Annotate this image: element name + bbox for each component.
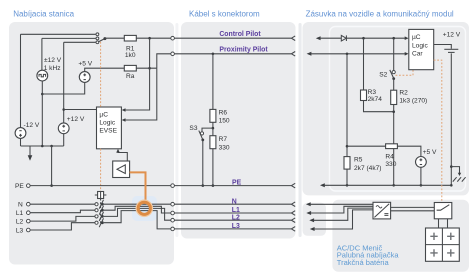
node: bus squarewave gnd [41, 145, 44, 148]
wire branch to R4 [347, 145, 386, 147]
svg-text:Ra: Ra [126, 73, 135, 80]
svg-text:Kábel s konektorom: Kábel s konektorom [189, 10, 260, 19]
terminal PP [171, 52, 175, 56]
wire L3 to contactor [30, 223, 95, 230]
svg-text:µC: µC [99, 112, 108, 119]
node S3 branch [212, 127, 215, 130]
terminal L2 mid [171, 218, 175, 222]
wire PE across panel1 [30, 185, 171, 187]
node R3R2 join [392, 110, 395, 113]
chevron PP right [291, 52, 295, 57]
wire N panel2 [174, 203, 291, 205]
wire L3 panel2 [174, 228, 291, 230]
source +5V vehicle [416, 149, 437, 167]
node S3 PE [202, 184, 205, 187]
svg-text:R6: R6 [219, 109, 228, 116]
wire L1 panel2 [174, 212, 291, 214]
uC Logic Car U3 [409, 29, 434, 69]
node R2 PE [392, 184, 395, 187]
wire: -12V bottom to ground bus [20, 138, 22, 146]
wire PP to uC Car [311, 53, 406, 55]
wire: common down to ground bus [41, 94, 43, 146]
current transformer toroid [136, 200, 152, 216]
chevron L2 right [291, 218, 295, 223]
orange dashed S2 to uC Car [396, 70, 414, 75]
svg-text:R7: R7 [219, 136, 228, 143]
node: Ra junction on CP sense [148, 67, 151, 70]
wire: square source bottom to common [41, 81, 43, 94]
wire: +12V bottom to ground bus [63, 134, 65, 146]
wire CP down to S2 [393, 38, 395, 70]
svg-text:+5 V: +5 V [78, 60, 92, 67]
wire Proximity Pilot [174, 53, 291, 55]
arrow L1 entry [306, 211, 311, 215]
diode D1 [341, 35, 346, 41]
node R7 PE [212, 184, 215, 187]
terminal L3 mid [171, 227, 175, 231]
wire: R1 to CP terminal [136, 37, 171, 39]
switch S3 [189, 125, 204, 141]
wire N to contactor [30, 203, 95, 205]
charge switch box [434, 203, 452, 219]
wire R6 to R7 [212, 122, 214, 135]
op-amp U2 box with triangle [113, 161, 130, 178]
wire uC Car to battery [434, 45, 452, 49]
svg-text:2k74: 2k74 [368, 96, 383, 103]
arrow into uC input 1 [122, 108, 126, 112]
wire branch to S3 [202, 128, 213, 132]
chevron L3 right [291, 227, 295, 232]
contactor contact L1 [95, 206, 104, 215]
svg-text:+5 V: +5 V [423, 149, 437, 156]
wire: -12V feed to selector top input [21, 34, 96, 127]
arrow CP entry [316, 36, 321, 40]
wire L2 through toroid to terminal [104, 208, 171, 220]
wire PE panel2 [174, 185, 291, 187]
orange dashed control link uC to contactor coil [100, 149, 102, 192]
node: common junction [41, 93, 44, 96]
terminal L1 left [27, 211, 31, 215]
svg-text:Proximity Pilot: Proximity Pilot [219, 47, 268, 54]
panel: bottom-left stub [303, 203, 327, 236]
resistor R5 2k7 [344, 157, 382, 172]
svg-text:+12 V: +12 V [67, 116, 85, 123]
wire L2 to contactor [30, 216, 95, 221]
contactor contact L2 [95, 212, 104, 221]
resistor R7 330 [210, 136, 230, 152]
wire: +5V top to proximity rail [85, 68, 125, 71]
orange dashed uC Car to charge switch [434, 60, 442, 202]
svg-text:1 kHz: 1 kHz [44, 65, 61, 72]
connector strip between panel1 and panel2 [175, 23, 178, 237]
resistor R4 330 [385, 144, 397, 168]
switch S1 selector contacts [96, 33, 106, 44]
wire: common bus to +5V bottom [42, 82, 84, 94]
resistor R6 150 [210, 109, 230, 124]
wire L3 to converter [314, 210, 373, 229]
source -12V [15, 122, 40, 139]
orange dashed control link uC to selector [100, 42, 102, 107]
node: CP sense junction [148, 37, 151, 40]
wire: bus down to PE [51, 146, 53, 186]
svg-text:Nabíjacia stanica: Nabíjacia stanica [13, 10, 74, 19]
terminal N mid [171, 202, 175, 206]
chevron N right [291, 202, 295, 207]
wire +5V down to PE bus [420, 167, 422, 185]
svg-text:1k3 (270): 1k3 (270) [399, 97, 427, 104]
resistor Ra [124, 65, 136, 80]
wire L2 to converter [313, 208, 373, 220]
wire N through toroid to terminal [104, 203, 171, 205]
uC Logic EVSE U1 [97, 107, 122, 149]
svg-text:1k0: 1k0 [125, 52, 136, 59]
wire PE bus panel3 [324, 184, 451, 186]
toroid highlight [132, 196, 157, 221]
chassis ground [451, 167, 465, 182]
svg-text:Zásuvka na vozidle a komunikač: Zásuvka na vozidle a komunikačný modul [306, 10, 454, 19]
resistor R2 1k3 [391, 90, 428, 105]
wire Control Pilot [174, 37, 291, 39]
chevron CP right [291, 36, 295, 41]
svg-text:S3: S3 [189, 125, 197, 132]
wire L2 panel2 [174, 219, 291, 221]
panel: inner divider vehicle socket [330, 27, 466, 192]
panel: Kabel s konektorom background [181, 22, 296, 239]
ground bus [21, 145, 64, 147]
node CP to R3 [362, 37, 365, 40]
wires switch to traction battery [439, 219, 448, 228]
node R5 PE [346, 184, 349, 187]
wire N to converter [310, 203, 373, 205]
node: PE junction [50, 184, 53, 187]
arrow N entry [306, 202, 311, 206]
AC/DC converter box [373, 202, 391, 219]
arrow L3 entry [310, 227, 315, 231]
wire: square source to selector mid input [42, 38, 96, 70]
wire S2 to R2 [393, 79, 395, 91]
svg-text:2k7 (4k7): 2k7 (4k7) [354, 165, 382, 172]
wire: CP sense down to uC input 1 [125, 38, 150, 110]
arrow into uC Car PP [405, 52, 409, 56]
wire: selector output to R1 [105, 37, 124, 39]
terminal L1 mid [171, 211, 175, 215]
svg-text:±12 V: ±12 V [44, 57, 62, 64]
chevron PE right [291, 183, 295, 188]
wire R7 down to PE [212, 149, 214, 186]
traction battery [426, 228, 460, 261]
battery 12V cell [444, 49, 458, 52]
node PP to R6 [212, 53, 215, 56]
svg-text:-12 V: -12 V [24, 122, 40, 129]
terminal CP [171, 36, 175, 40]
wire L1 through toroid to terminal [104, 206, 171, 213]
svg-text:L3: L3 [16, 228, 24, 235]
svg-text:Trakčná batéria: Trakčná batéria [337, 258, 390, 267]
svg-text:R4: R4 [385, 154, 394, 161]
wire R4 to +5V [397, 146, 421, 156]
panel: bottom sub-panel AC/DC [332, 200, 469, 272]
terminal L3 left [27, 228, 31, 232]
svg-text:150: 150 [219, 118, 230, 125]
node: +12V branch to uC [62, 108, 65, 111]
wire: +12V supply to uC EVSE [64, 109, 97, 111]
node PP to R5 [346, 53, 349, 56]
svg-text:PE: PE [15, 183, 24, 190]
svg-text:330: 330 [385, 161, 396, 168]
wire R5 down to PE bus [346, 169, 348, 185]
wire R3 bottom to R2 net [364, 101, 394, 112]
source +12V [58, 116, 85, 134]
switch S2 [379, 70, 395, 80]
terminal PE mid [171, 184, 175, 188]
svg-text:+12 V: +12 V [443, 32, 461, 39]
node +5V PE [420, 184, 423, 187]
wire battery down to PE bus [450, 53, 452, 185]
wire: amp output to uC bottom [118, 152, 127, 161]
wire: +12V feed to selector bottom input [64, 42, 96, 123]
wire CP diode to uC Car [346, 37, 405, 39]
wire: PP sense down to uC input 2 [125, 68, 157, 120]
source +-12V 1kHz square-wave [37, 57, 62, 81]
resistor R3 2k74 [361, 89, 383, 103]
resistor R1 1k0 [124, 35, 136, 59]
svg-text:Car: Car [412, 50, 423, 57]
svg-text:Control Pilot: Control Pilot [219, 31, 261, 38]
dashed mechanical link of contactor [100, 199, 102, 225]
arrow into uC Car CP [405, 36, 409, 40]
wire L1 to contactor [30, 210, 95, 213]
connector strip between panel2 and panel3 [299, 23, 302, 237]
svg-text:Logic: Logic [412, 42, 428, 49]
wire S3 down to PE [202, 140, 204, 186]
svg-text:N: N [18, 202, 23, 209]
arrow PP entry [307, 52, 312, 56]
node R4 branch [346, 145, 349, 148]
arrow PE entry [320, 183, 325, 187]
node: bus PE drop [50, 145, 53, 148]
arrow L2 entry [309, 218, 314, 222]
source +5V [78, 60, 92, 82]
panel: Nabijacia stanica background [9, 22, 174, 265]
terminal L2 left [27, 219, 31, 223]
ground arrow symbol [28, 146, 33, 161]
node CP to S2 [392, 37, 395, 40]
contactor coil K1 [95, 192, 107, 199]
arrow into uC bottom [116, 149, 120, 153]
wire: PP jog up to terminal [157, 54, 171, 68]
svg-text:R2: R2 [399, 90, 408, 97]
orange sense wire amp to toroid [130, 172, 146, 202]
svg-text:Logic: Logic [99, 120, 115, 127]
arrow into uC input 2 [122, 118, 126, 122]
contactor contact L3 [95, 218, 104, 227]
svg-text:µC: µC [412, 34, 421, 41]
wire CP down to R3 [363, 38, 365, 90]
wire L3 through toroid to terminal [104, 211, 171, 229]
wire PP down to R6 [212, 54, 214, 110]
svg-text:L1: L1 [16, 210, 24, 217]
svg-text:R5: R5 [354, 157, 363, 164]
svg-text:330: 330 [219, 144, 230, 151]
contactor contact N [95, 200, 104, 209]
node chassis branch [450, 165, 453, 168]
wire CP to diode [320, 37, 342, 39]
wire: Ra to PP jog [136, 67, 157, 69]
wire PP down to R5 [346, 54, 348, 157]
wires converter to charge switch [391, 207, 435, 210]
terminal N left [27, 202, 31, 206]
svg-text:S2: S2 [379, 72, 387, 79]
wire L1 to converter [310, 206, 373, 213]
chevron L1 right [291, 211, 295, 216]
svg-text:L2: L2 [16, 219, 24, 226]
terminal PE left [27, 184, 31, 188]
svg-text:EVSE: EVSE [99, 128, 117, 135]
panel: Zasuvka na vozidle background [303, 22, 470, 195]
wire R2 down to PE bus [393, 105, 395, 186]
node battery PE [450, 184, 453, 187]
